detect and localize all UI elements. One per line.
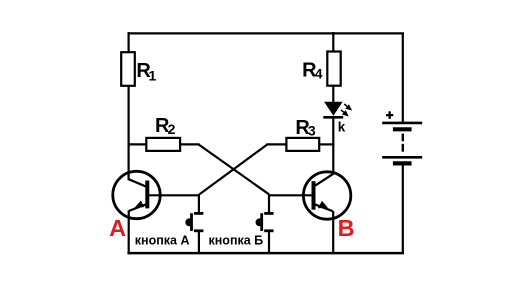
wire R3 right lead — [319, 143, 334, 145]
LED emission arrow 1 — [344, 104, 351, 109]
wire base lead transistor B from node B junction — [268, 194, 313, 196]
wire bottom rail — [127, 252, 404, 255]
resistor R2 — [146, 138, 180, 151]
transistor A collector diagonal — [129, 179, 147, 186]
svg-text:кнопка А: кнопка А — [135, 233, 190, 247]
battery plate long (+) cell 2 — [382, 156, 422, 159]
wire top rail — [128, 32, 405, 34]
svg-text:k: k — [338, 120, 346, 135]
wire left rail / transistor A collector lead — [128, 32, 130, 180]
LED emission arrow 2 — [341, 110, 347, 115]
transistor A circle — [113, 171, 160, 218]
transistor A emitter arrow (PNP, pointing to bar) — [134, 201, 144, 209]
button SB1 bottom contact cap — [194, 229, 203, 232]
resistor R1 — [121, 52, 135, 86]
battery plate short (-) cell 1 — [393, 127, 412, 131]
button SB2 bottom contact cap — [264, 229, 273, 232]
wire button B top lead — [268, 194, 270, 213]
button SB1 movable bar — [190, 213, 193, 231]
transistor B base bar — [312, 181, 316, 210]
transistor A base bar — [145, 181, 149, 209]
LED cathode bar — [323, 116, 343, 119]
transistor B emitter diagonal — [315, 204, 333, 211]
transistor A emitter diagonal — [129, 204, 146, 211]
wire button A bottom lead — [198, 231, 200, 253]
svg-text:1: 1 — [149, 67, 157, 83]
wire button A top lead — [198, 194, 200, 213]
wire R4 bottom lead to LED — [332, 86, 334, 103]
svg-text:B: B — [338, 215, 355, 241]
button SB2 knob — [256, 218, 261, 226]
LED VD1 triangle (anode) — [324, 102, 343, 116]
wire base lead transistor A to node A junction — [149, 194, 200, 196]
button SB2 top contact cap — [264, 212, 273, 215]
wire right rail upper (to battery +) — [402, 33, 404, 122]
button SB2 movable bar — [260, 213, 263, 231]
button SB1 top contact cap — [194, 212, 203, 215]
battery plate short (-) cell 2 — [393, 161, 412, 165]
wire R4 top lead from top rail — [332, 32, 334, 52]
wire LED cathode down / transistor B collector lead — [332, 117, 334, 174]
wire transistor A emitter lead down — [128, 210, 130, 253]
transistor B emitter arrow (PNP, pointing to bar) — [318, 201, 328, 208]
resistor R4 — [327, 52, 340, 86]
svg-text:3: 3 — [308, 123, 316, 139]
wire cross-coupling R2 to base B (diagonal) — [199, 144, 269, 194]
wire transistor B emitter lead down — [332, 211, 334, 254]
battery dashed middle link — [402, 134, 404, 152]
svg-text:2: 2 — [168, 121, 176, 137]
wire R2 left lead from left rail — [129, 143, 146, 145]
svg-text:4: 4 — [315, 66, 323, 82]
wire right rail lower (battery - to bottom) — [402, 165, 404, 254]
svg-text:A: A — [109, 215, 126, 241]
resistor R3 — [286, 138, 319, 151]
wire R3 left lead — [266, 143, 286, 145]
battery GB1 plus label — [386, 111, 393, 119]
button SB1 knob — [185, 218, 190, 226]
svg-text:кнопка Б: кнопка Б — [209, 233, 264, 247]
wire button B bottom lead — [268, 231, 270, 253]
transistor B circle — [303, 172, 350, 219]
wire cross-coupling R3 to base A (diagonal) — [200, 144, 268, 194]
transistor B collector diagonal — [315, 174, 333, 186]
wire R2 right lead — [180, 143, 199, 145]
battery plate long (+) cell 1 — [382, 122, 422, 125]
